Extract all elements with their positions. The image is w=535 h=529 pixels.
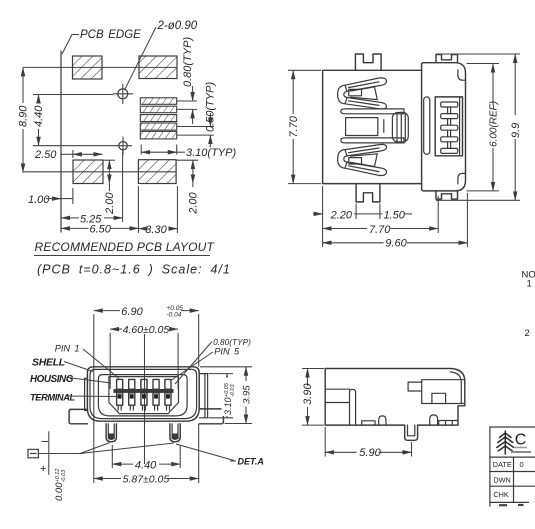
svg-text:6.00(REF): 6.00(REF) xyxy=(489,101,500,147)
dim 3.95 xyxy=(200,367,253,424)
svg-text:0: 0 xyxy=(520,460,524,469)
extension line 4.60 right xyxy=(177,333,179,389)
svg-text:2: 2 xyxy=(525,328,530,339)
pad top-right xyxy=(139,56,177,79)
centerline top pad row xyxy=(23,66,177,68)
svg-text:-0.03: -0.03 xyxy=(61,469,67,482)
dim 7.70 bottom xyxy=(323,224,439,236)
svg-text:9.60: 9.60 xyxy=(385,237,407,249)
dim 0.50 TYP xyxy=(177,82,217,147)
left side tab xyxy=(85,378,88,410)
svg-text:9.9: 9.9 xyxy=(510,123,522,138)
svg-text:1.50: 1.50 xyxy=(384,209,406,221)
top-right peg xyxy=(436,55,458,63)
leader pin1 xyxy=(83,349,119,379)
PCB edge line xyxy=(60,51,62,232)
pin links xyxy=(448,107,451,148)
dim 6.90 +0.05 -0.04 xyxy=(94,305,199,318)
logo tree xyxy=(497,431,514,454)
svg-text:7.70: 7.70 xyxy=(369,224,391,236)
leader to PCB edge xyxy=(62,35,79,55)
dim 5.87 xyxy=(94,474,199,486)
tolerance zone line xyxy=(40,431,49,475)
dim 1.00 xyxy=(28,188,73,206)
right shell edge xyxy=(465,83,467,170)
leader to hole xyxy=(125,27,157,90)
svg-text:5.90: 5.90 xyxy=(359,447,381,459)
svg-text:DET.A: DET.A xyxy=(238,457,264,467)
svg-text:SHELL: SHELL xyxy=(32,357,65,369)
leader housing xyxy=(68,378,111,384)
block border top xyxy=(490,426,535,428)
svg-text:6.50: 6.50 xyxy=(90,223,112,235)
terminal tails top row xyxy=(117,379,171,389)
bottom-right solder bracket xyxy=(422,170,466,191)
terminal lance bars xyxy=(114,389,174,393)
bottom slots xyxy=(439,421,458,426)
small pad 4 xyxy=(140,123,176,130)
svg-text:4.40: 4.40 xyxy=(135,459,157,471)
dim 2.20 / 1.50 xyxy=(313,209,412,221)
shell inner line xyxy=(90,369,197,418)
svg-text:2-ø0.90: 2-ø0.90 xyxy=(157,20,198,32)
svg-text:0.50(TYP): 0.50(TYP) xyxy=(205,82,217,132)
svg-text:PCB EDGE: PCB EDGE xyxy=(80,29,141,41)
centerline xyxy=(144,334,146,464)
post xyxy=(350,389,356,425)
svg-text:1: 1 xyxy=(527,279,532,290)
bottom-right peg xyxy=(436,191,458,199)
dim 3.30 xyxy=(138,186,177,236)
latch nub xyxy=(408,382,422,391)
svg-text:4.40: 4.40 xyxy=(33,105,45,127)
dim 3.10 right xyxy=(209,374,236,418)
label DET.A xyxy=(176,444,264,467)
leader shell xyxy=(64,362,93,372)
hole 1 xyxy=(113,84,133,104)
dim 4.60 +/-0.05 xyxy=(110,324,178,336)
pad top-left xyxy=(73,56,103,79)
bottom extension lines xyxy=(322,186,324,247)
extension line 6.90/5.87 left xyxy=(93,314,95,483)
dim 6.00 REF xyxy=(467,64,500,191)
spring contact top xyxy=(338,78,387,109)
bottom arc bump right xyxy=(430,415,438,425)
leader pin5 xyxy=(172,352,214,380)
row line 3 xyxy=(490,485,535,487)
dim 4.40 xyxy=(33,95,114,146)
datum box xyxy=(28,449,38,458)
dim 7.70 left xyxy=(288,70,321,183)
svg-text:2.50: 2.50 xyxy=(34,149,57,161)
svg-text:-0.04: -0.04 xyxy=(167,312,182,319)
svg-text:0.80(TYP): 0.80(TYP) xyxy=(213,337,251,347)
leader terminal xyxy=(67,395,119,398)
extension line 4.60 left xyxy=(109,333,111,389)
dim 5.25 xyxy=(61,151,123,226)
latch step xyxy=(432,393,446,403)
dim 4.40 xyxy=(112,445,180,471)
pad bottom-right xyxy=(138,160,176,184)
bottom round bump xyxy=(379,416,386,425)
datum leader xyxy=(38,453,82,455)
svg-text:CHK: CHK xyxy=(493,490,509,499)
dim 3.90 xyxy=(302,369,324,426)
terminal contacts bottom row xyxy=(117,393,171,405)
small pad 3 xyxy=(140,115,176,122)
svg-text:DATE: DATE xyxy=(493,460,512,469)
svg-text:1.00: 1.00 xyxy=(28,194,50,206)
title RECOMMENDED PCB LAYOUT xyxy=(34,240,216,256)
terminal under ticks xyxy=(118,405,169,410)
svg-text:-0.03: -0.03 xyxy=(230,384,236,397)
top-left mounting peg xyxy=(355,54,381,70)
partial row remnants xyxy=(499,504,524,506)
leg right xyxy=(170,424,180,442)
svg-text:2.00: 2.00 xyxy=(104,192,116,215)
dim 0.00 coplanarity xyxy=(54,469,67,501)
svg-text:TERMINAL: TERMINAL xyxy=(30,393,76,403)
housing xyxy=(109,377,179,414)
svg-text:0.00: 0.00 xyxy=(54,482,65,501)
block border left xyxy=(489,427,491,506)
spring contact middle xyxy=(341,109,409,143)
dim 5.90 xyxy=(325,427,411,459)
right flange xyxy=(199,409,223,424)
spring contact bottom (mirror) xyxy=(338,144,387,175)
centerline bottom pad row xyxy=(23,171,176,173)
pin 1 xyxy=(441,102,458,107)
dim 9.60 xyxy=(323,237,468,249)
svg-text:(PCB t=0.8~1.6 ) Scale: 4/: (PCB t=0.8~1.6 ) Scale: 4/1 xyxy=(37,263,231,277)
left flange xyxy=(69,409,87,423)
dim 2.00 right xyxy=(177,160,200,215)
row line 1 xyxy=(490,456,535,458)
svg-text:C: C xyxy=(515,432,527,449)
pin 3 xyxy=(441,125,458,130)
svg-text:3.30: 3.30 xyxy=(145,224,167,236)
svg-text:3.95: 3.95 xyxy=(242,385,253,404)
dim 0.80 TYP xyxy=(177,37,197,124)
svg-text:3.90: 3.90 xyxy=(302,383,314,405)
svg-text:4.60±0.05: 4.60±0.05 xyxy=(123,324,170,336)
dim 3.10 TYP xyxy=(141,145,236,160)
svg-text:0.80(TYP): 0.80(TYP) xyxy=(182,37,194,87)
svg-text:3.10(TYP): 3.10(TYP) xyxy=(186,147,236,159)
svg-text:7.70: 7.70 xyxy=(288,115,300,137)
bottom-left mounting peg xyxy=(356,184,380,202)
svg-text:HOUSING: HOUSING xyxy=(30,374,74,385)
dim 6.50 xyxy=(61,186,138,235)
small pad 5 xyxy=(140,131,176,139)
pin 2 xyxy=(441,114,458,119)
svg-text:PIN 1: PIN 1 xyxy=(55,344,80,354)
leg inner lines xyxy=(408,425,415,436)
leader 0.80 xyxy=(175,342,212,385)
svg-text:6.90: 6.90 xyxy=(121,306,143,318)
svg-text:PIN 5: PIN 5 xyxy=(214,347,240,357)
inner corner curve xyxy=(451,372,462,404)
shell outer xyxy=(87,367,199,421)
dim 2.50 xyxy=(34,149,102,161)
svg-text:2.00: 2.00 xyxy=(188,192,200,215)
body outline xyxy=(325,369,465,441)
svg-text:RECOMMENDED PCB LAYOUT: RECOMMENDED PCB LAYOUT xyxy=(35,240,216,254)
left inner lines xyxy=(325,389,349,402)
svg-text:3.10: 3.10 xyxy=(223,397,233,415)
svg-text:8.90: 8.90 xyxy=(18,105,30,127)
hole 2 xyxy=(114,137,132,156)
row line 2 xyxy=(490,471,535,473)
leg left xyxy=(106,424,116,442)
extension line 6.90/5.87 right xyxy=(198,314,200,367)
pin 4 xyxy=(441,137,458,142)
contact dimples xyxy=(118,394,170,398)
leaders to legs xyxy=(80,443,110,454)
pad bottom-left xyxy=(73,160,103,184)
pin 5 xyxy=(441,148,458,153)
opening xyxy=(98,375,187,416)
logo small text xyxy=(515,447,527,449)
dim 9.9 xyxy=(436,54,522,200)
dim 8.90 xyxy=(18,67,30,172)
dim 2.00 left xyxy=(104,160,117,215)
shell body outline xyxy=(323,70,422,183)
right side tab xyxy=(199,374,207,418)
row line 4 xyxy=(490,501,529,503)
svg-text:5.87±0.05: 5.87±0.05 xyxy=(123,474,170,486)
svg-text:+: + xyxy=(40,463,46,475)
column divider xyxy=(513,457,515,502)
top-right solder bracket xyxy=(422,63,466,84)
housing slot (pill) xyxy=(424,97,430,154)
terminal block xyxy=(435,97,462,156)
small pad 1 xyxy=(140,98,176,105)
latch box xyxy=(422,380,465,404)
small pad 2 xyxy=(140,106,176,113)
bottom bump rect xyxy=(362,421,375,425)
svg-text:2.20: 2.20 xyxy=(330,209,353,221)
svg-text:DWN: DWN xyxy=(493,475,510,484)
